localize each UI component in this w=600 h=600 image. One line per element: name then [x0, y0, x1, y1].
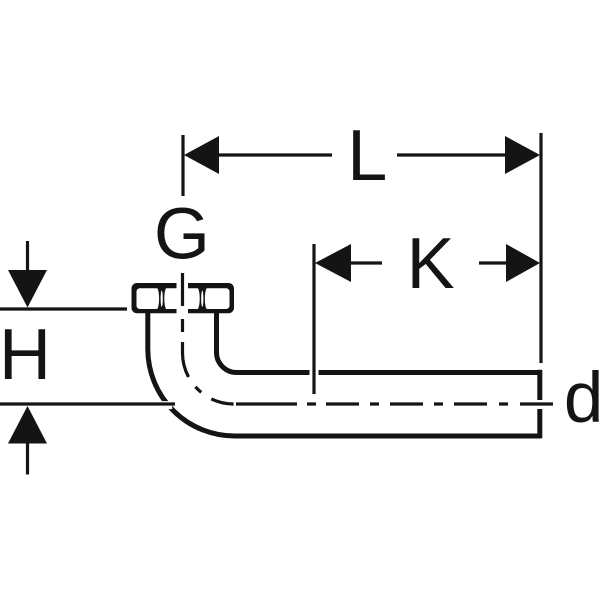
- svg-text:L: L: [347, 116, 387, 196]
- svg-text:H: H: [0, 315, 51, 395]
- pipe end cap: [537, 370, 542, 439]
- nut facet sliver right: [201, 290, 203, 307]
- dimension L arrow left: [184, 136, 219, 174]
- nut face middle: [164, 288, 199, 309]
- white gap in nut border at centerline (top): [177, 281, 189, 290]
- svg-text:K: K: [407, 224, 455, 304]
- dimension L arrow right: [505, 136, 540, 174]
- dimension K extension line left: [312, 244, 315, 394]
- dimension H top arrow: [8, 241, 47, 308]
- white gap in nut border at centerline (bottom): [177, 307, 189, 315]
- dimension L/K extension line right: [539, 133, 542, 363]
- centerline vertical + bend arc: [183, 273, 234, 404]
- dimension L extension line left: [181, 135, 184, 196]
- pipe elbow outer wall: [148, 311, 541, 436]
- dimension K line: [351, 261, 506, 264]
- nut face right: [205, 288, 230, 309]
- pipe elbow inner wall: [217, 311, 542, 373]
- nut face left: [137, 288, 160, 309]
- svg-text:d: d: [564, 359, 600, 438]
- dimension H top reference line: [0, 307, 127, 310]
- dimension K arrow left: [315, 244, 351, 282]
- nut body: [132, 283, 235, 313]
- svg-text:G: G: [154, 195, 210, 275]
- dimension K arrow right: [506, 244, 540, 282]
- centerline horizontal (pipe axis, also H reference): [0, 402, 554, 405]
- dimension L line: [219, 153, 505, 156]
- dimension H bottom arrow: [8, 406, 47, 475]
- nut facet sliver left: [161, 290, 163, 307]
- white gap in outer wall at centerline crossing: [161, 401, 172, 409]
